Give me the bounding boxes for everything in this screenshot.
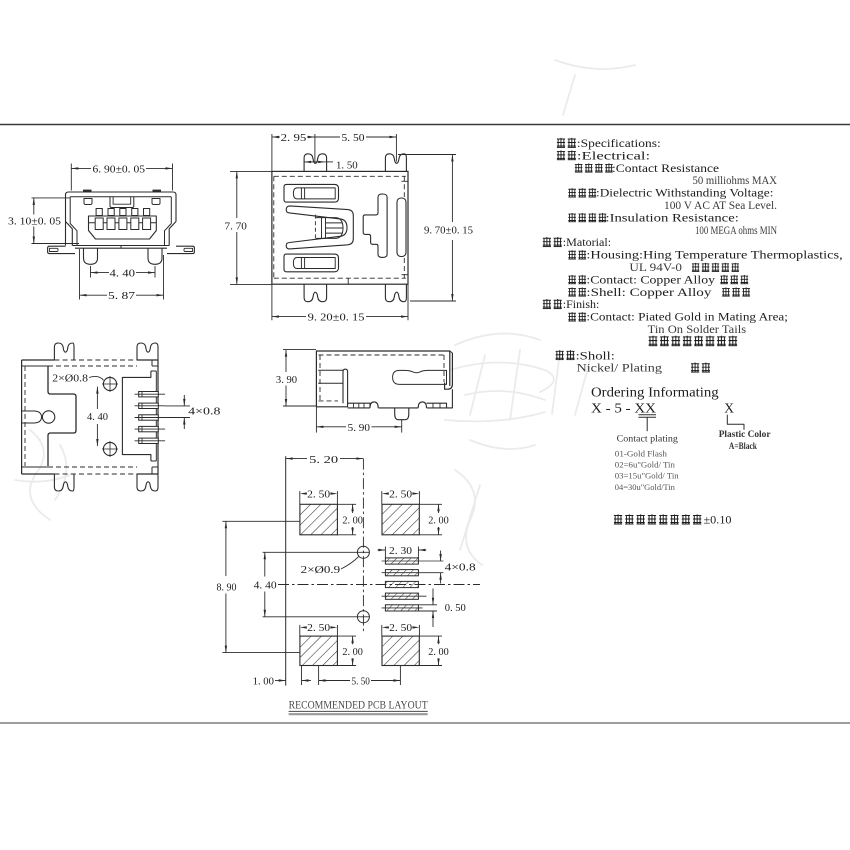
dim 0.50 bbox=[418, 604, 437, 606]
dim 2.50 bottom-right bbox=[381, 625, 383, 636]
pcb pad top-right bbox=[382, 504, 419, 535]
pcb vertical centerline bbox=[362, 459, 364, 632]
svg-text::Shell: Copper Alloy: :Shell: Copper Alloy bbox=[586, 285, 711, 299]
top view hidden inner rect bbox=[274, 176, 406, 278]
bottom view top-left corner lines bbox=[22, 365, 48, 367]
bottom view hidden lines bbox=[54, 359, 137, 361]
pcb pad top-left bbox=[300, 504, 338, 535]
top view center spring clip bbox=[286, 206, 353, 249]
tolerance note bbox=[614, 514, 622, 524]
dim 3.10±0.05 bbox=[32, 197, 71, 199]
top view mount post bottom-right bbox=[385, 284, 406, 302]
svg-text:2. 00: 2. 00 bbox=[428, 646, 449, 658]
svg-text:5. 20: 5. 20 bbox=[309, 454, 339, 466]
top border line bbox=[0, 124, 850, 126]
svg-text:Contact plating: Contact plating bbox=[617, 435, 679, 445]
svg-text:01-Gold Flash: 01-Gold Flash bbox=[615, 449, 668, 459]
dim 2.50 top-right bbox=[381, 491, 383, 504]
svg-text:6. 90±0. 05: 6. 90±0. 05 bbox=[93, 163, 146, 175]
svg-text:4. 40: 4. 40 bbox=[110, 268, 136, 280]
spec line shell copper bbox=[568, 287, 576, 296]
spec line contact copper bbox=[568, 275, 576, 284]
bottom view mount post top-right bbox=[137, 343, 158, 360]
svg-text:03=15u"Gold/ Tin: 03=15u"Gold/ Tin bbox=[615, 471, 680, 481]
svg-text:1. 00: 1. 00 bbox=[253, 675, 275, 687]
svg-text:Nickel/ Plating: Nickel/ Plating bbox=[577, 361, 663, 375]
bottom view left hole bbox=[42, 411, 54, 423]
dim 5.50 pcb bbox=[318, 666, 320, 686]
underline XX bbox=[639, 414, 657, 416]
side view flange bar bbox=[343, 369, 348, 403]
pcb pin pads bbox=[385, 558, 418, 564]
front view left leg bbox=[84, 248, 98, 264]
svg-text:Plastic Color: Plastic Color bbox=[719, 430, 772, 440]
side view hidden left edge bbox=[319, 355, 321, 401]
svg-text:2. 30: 2. 30 bbox=[389, 545, 413, 557]
pcb horizontal centerline bbox=[278, 584, 480, 586]
svg-text:3. 10±0. 05: 3. 10±0. 05 bbox=[8, 215, 62, 227]
dim 2.00 top-right bbox=[419, 503, 442, 505]
front view inner shell bbox=[70, 197, 171, 246]
svg-text:4. 40: 4. 40 bbox=[87, 411, 108, 423]
bottom view hole bottom bbox=[103, 442, 116, 455]
dim 4.40 bottom view bbox=[96, 387, 98, 409]
bottom view castellated edge bbox=[155, 371, 157, 461]
top view spring hook upper bbox=[284, 184, 339, 202]
bottom view base plate cutout bbox=[48, 366, 76, 466]
dim 5.90 bbox=[315, 407, 317, 433]
svg-text:2×Ø0.8: 2×Ø0.8 bbox=[52, 372, 88, 384]
spec line dielectric bbox=[568, 188, 576, 197]
svg-text:5. 90: 5. 90 bbox=[348, 422, 371, 434]
top view body outline bbox=[272, 171, 408, 284]
svg-text:02=6u"Gold/ Tin: 02=6u"Gold/ Tin bbox=[615, 460, 676, 470]
svg-text:9. 20±0. 15: 9. 20±0. 15 bbox=[308, 312, 365, 324]
spec line electrical bbox=[557, 150, 565, 160]
side view front flange lines bbox=[318, 369, 343, 371]
dim 2.00 top-left bbox=[337, 503, 356, 505]
svg-text:4. 40: 4. 40 bbox=[254, 579, 278, 591]
dim 1.50 bbox=[304, 161, 325, 163]
svg-text:Tin On Solder Tails: Tin On Solder Tails bbox=[648, 322, 747, 336]
top view spring hook lower bbox=[284, 254, 339, 272]
svg-text:5. 50: 5. 50 bbox=[342, 132, 366, 144]
svg-text:4×0.8: 4×0.8 bbox=[445, 562, 477, 574]
top view fixed contact T-shape bbox=[363, 194, 387, 257]
spec line contact plated bbox=[568, 312, 576, 321]
svg-text:0. 50: 0. 50 bbox=[445, 602, 467, 614]
top view hidden right edge bbox=[403, 176, 405, 197]
dim 5.87 bbox=[79, 249, 81, 300]
svg-text:2. 00: 2. 00 bbox=[428, 515, 449, 527]
dim 2.00 bottom-right bbox=[419, 635, 442, 637]
top view mount post bottom-left bbox=[304, 284, 327, 302]
svg-text:1. 50: 1. 50 bbox=[336, 159, 358, 171]
svg-text:2×Ø0.9: 2×Ø0.9 bbox=[301, 564, 341, 576]
bottom view mount post bottom-left bbox=[54, 474, 74, 491]
dim 9.70±0.15 bbox=[398, 154, 456, 156]
faint watermark bbox=[15, 60, 635, 565]
top view bottom mid tick bbox=[347, 278, 349, 284]
dim 2.30 bbox=[384, 547, 386, 559]
pcb hole bottom bbox=[357, 611, 369, 623]
dim 2.50 top-left bbox=[299, 491, 301, 504]
svg-text:8. 90: 8. 90 bbox=[217, 582, 237, 594]
bottom view left notch bbox=[22, 411, 42, 423]
front view right wing bbox=[167, 246, 194, 253]
dim 2.50 bottom-left bbox=[299, 625, 301, 636]
svg-text:Ordering Informating: Ordering Informating bbox=[591, 385, 719, 400]
svg-text:4×0.8: 4×0.8 bbox=[188, 406, 221, 418]
top view side bar bbox=[397, 198, 406, 257]
svg-text:2. 50: 2. 50 bbox=[307, 622, 331, 634]
dim 8.90 bbox=[222, 520, 300, 522]
dim 4x0.8 pcb bbox=[440, 551, 442, 562]
side view body outline bbox=[316, 351, 452, 407]
front view inner hook right bbox=[152, 199, 160, 205]
svg-text:3. 90: 3. 90 bbox=[276, 374, 298, 386]
svg-text:A=Black: A=Black bbox=[729, 441, 757, 451]
spec line material bbox=[543, 237, 551, 247]
dim 2.00 bottom-left bbox=[337, 635, 356, 637]
dim 9.20±0.15 bbox=[407, 284, 409, 320]
side view feet dividers bbox=[353, 403, 355, 408]
front view top bumps bbox=[83, 190, 92, 193]
top view clip tongue hidden edge bbox=[314, 215, 316, 241]
branch contact plating bbox=[639, 416, 657, 418]
side view hidden top line bbox=[319, 354, 445, 356]
front view inner hook left bbox=[84, 199, 92, 205]
svg-text:2. 00: 2. 00 bbox=[342, 646, 363, 658]
pcb pad bottom-left bbox=[300, 636, 338, 665]
svg-text:RECOMMENDED PCB LAYOUT: RECOMMENDED PCB LAYOUT bbox=[289, 700, 428, 712]
top view fold tick top-right bbox=[402, 180, 409, 182]
spec line insulation bbox=[568, 213, 576, 222]
bottom view pin slot outline bbox=[122, 371, 156, 461]
front view base bar bbox=[72, 245, 169, 247]
spec line finish bbox=[543, 299, 551, 309]
svg-text:100 MEGA ohms MIN: 100 MEGA ohms MIN bbox=[695, 223, 777, 237]
dim 5.20 bbox=[286, 458, 307, 460]
dim 4.40 pcb bbox=[264, 552, 266, 576]
side view center post bbox=[395, 408, 409, 420]
spec line housing bbox=[568, 250, 576, 259]
svg-text:2. 95: 2. 95 bbox=[281, 132, 307, 144]
bottom view mount post bottom-right bbox=[137, 474, 158, 491]
front view right leg bbox=[148, 248, 162, 264]
side view hidden right edge bbox=[443, 355, 445, 382]
svg-text:2. 50: 2. 50 bbox=[307, 488, 331, 500]
pcb hole top bbox=[357, 546, 369, 558]
pcb main reference line bbox=[285, 456, 287, 685]
svg-text:±0.10: ±0.10 bbox=[704, 513, 732, 527]
front view contact housing bbox=[89, 216, 157, 239]
svg-text:X - 5 - XX: X - 5 - XX bbox=[591, 401, 656, 416]
bottom view terminal pins bbox=[139, 392, 159, 397]
top view clip tongue bbox=[316, 218, 343, 239]
pcb pad bottom-right bbox=[382, 636, 419, 665]
svg-text:2. 50: 2. 50 bbox=[389, 622, 413, 634]
side view bottom edge with feet bbox=[316, 389, 452, 408]
spec line specifications bbox=[557, 138, 565, 148]
bottom view body outline bbox=[21, 360, 23, 474]
dim 2.95 bbox=[271, 134, 273, 320]
top view mount post top-left bbox=[304, 154, 327, 172]
svg-text::Housing:Hing Temperature The: :Housing:Hing Temperature Thermoplastics… bbox=[586, 248, 842, 262]
dim 5.50 top view bbox=[395, 134, 397, 162]
spec line contact resistance bbox=[575, 163, 583, 172]
svg-text:9. 70±0. 15: 9. 70±0. 15 bbox=[424, 225, 473, 237]
svg-text:04=30u"Gold/Tin: 04=30u"Gold/Tin bbox=[615, 482, 676, 492]
branch plastic color bbox=[727, 415, 744, 430]
dim 6.90±0.05 bbox=[70, 164, 72, 191]
svg-text:5. 50: 5. 50 bbox=[352, 676, 371, 688]
front view contact pins bbox=[96, 209, 102, 216]
front view outer shell bbox=[66, 192, 177, 246]
svg-text:2. 00: 2. 00 bbox=[342, 515, 363, 527]
dim 7.70 bbox=[230, 170, 272, 172]
spec line shell2 bbox=[556, 350, 564, 360]
front view left wing bbox=[48, 246, 75, 253]
dim 4.40 front bbox=[90, 266, 92, 278]
spec line cjk plating note bbox=[649, 336, 658, 346]
bottom border line bbox=[0, 722, 850, 724]
dim 3.90 bbox=[283, 349, 316, 351]
svg-text:2. 50: 2. 50 bbox=[389, 488, 413, 500]
top view mount post top-right bbox=[385, 154, 406, 172]
dim 4x0.8 bottom view bbox=[165, 405, 190, 407]
svg-text:5. 87: 5. 87 bbox=[108, 290, 136, 302]
svg-text:X: X bbox=[724, 401, 734, 416]
bottom view mount post top-left bbox=[54, 343, 74, 360]
svg-text:7. 70: 7. 70 bbox=[225, 220, 248, 232]
front view center tab bbox=[110, 197, 134, 208]
side view shell slot bbox=[393, 370, 447, 384]
front view housing mid line bbox=[89, 222, 157, 224]
bottom view hole top bbox=[103, 377, 116, 390]
